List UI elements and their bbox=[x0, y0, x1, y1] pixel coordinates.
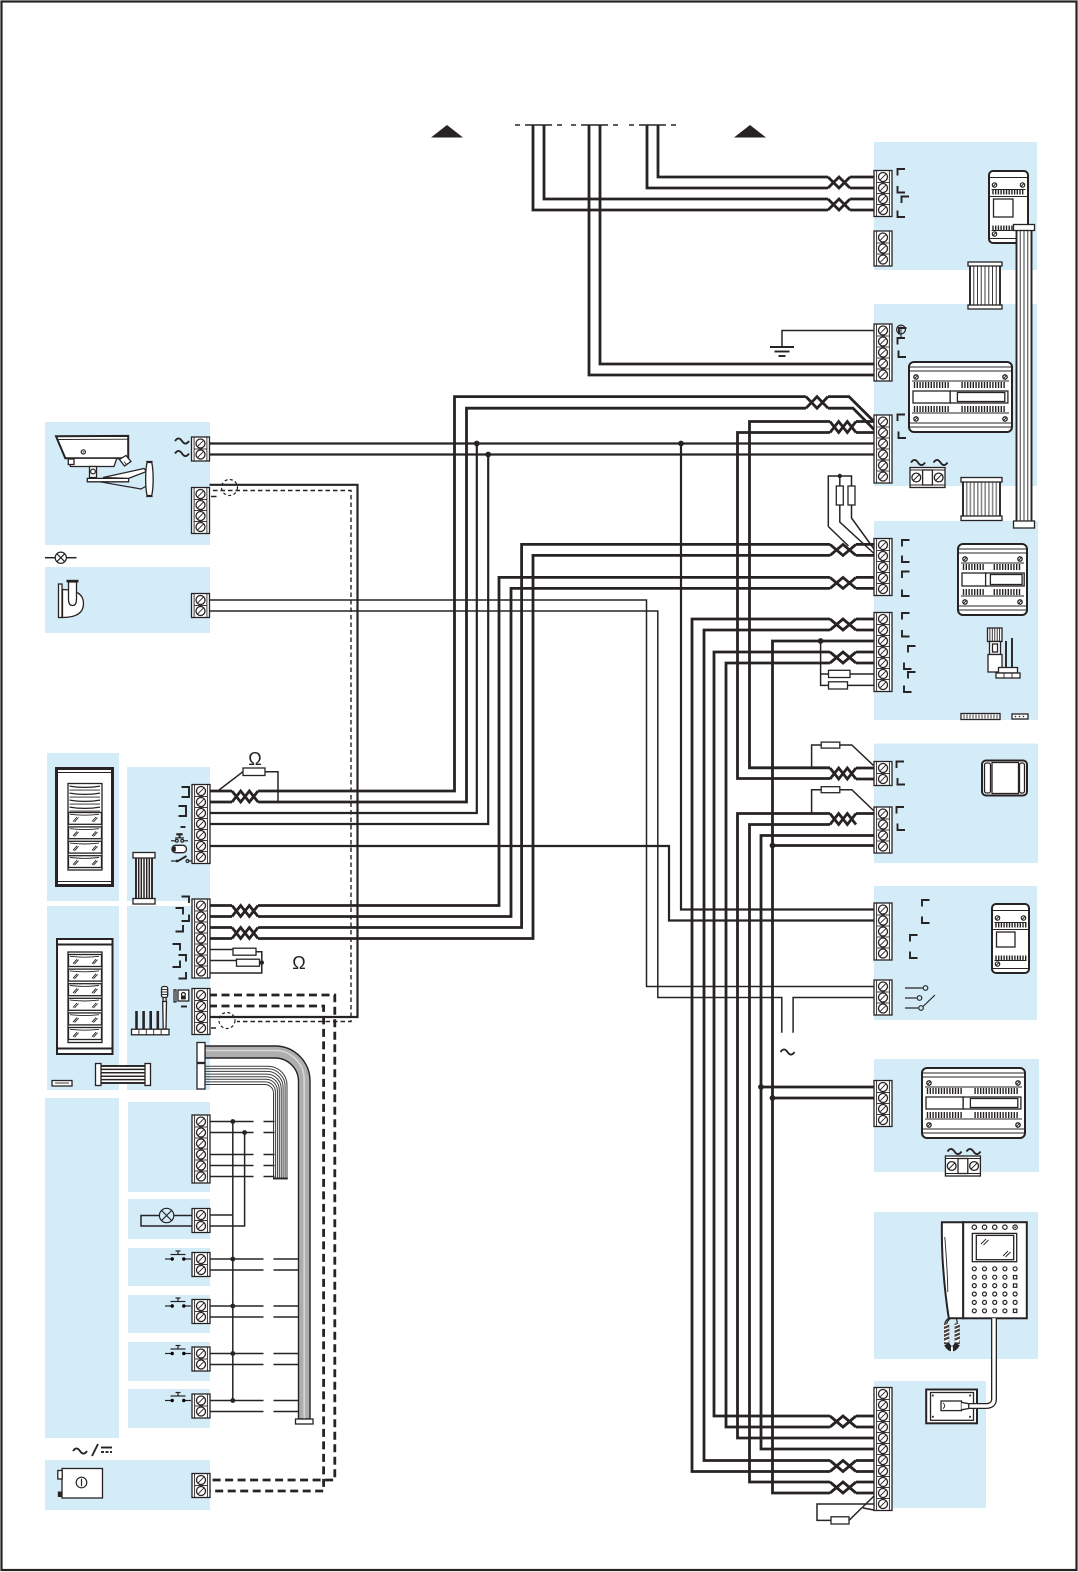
twisted pair symbol at door-TB1 bbox=[232, 791, 258, 802]
wire push-button unit row 2 bbox=[209, 1132, 275, 1134]
twisted pair symbol at TB-H middle bbox=[830, 1461, 856, 1472]
wire earth from TB-B1 screw1 bbox=[782, 331, 874, 348]
wire bus door-TB1 screw1 riser segment bbox=[258, 397, 806, 791]
twisted pair symbol at TB-C2 upper bbox=[830, 619, 856, 630]
wire bus TB-D2 screw2 down to TB-H screw9 bbox=[750, 825, 831, 1483]
wire riser pair1 to TB-A1 screw3 end bbox=[850, 198, 874, 201]
wire lamp line1 to TB-E2 screw1 bbox=[209, 600, 874, 987]
panel background: push-button sub-box 1 bbox=[128, 1102, 210, 1192]
wire camera video shield dashed bbox=[213, 491, 351, 1022]
wire camera tap to TB-E1 screw1 bbox=[681, 444, 874, 910]
switch icon at door-TB1 bbox=[171, 856, 193, 862]
twisted pair symbol at door-TB2 lower bbox=[232, 928, 258, 939]
resistor network above TB-C1 bbox=[828, 474, 874, 554]
wire TB-D2 screw3 line down to TB-H screw6 bbox=[761, 836, 874, 1450]
wire TB-C2 screw4 down to TB-H screw3 bbox=[714, 652, 830, 1416]
junction dot TB-C2 screw3 resistor tap bbox=[818, 638, 824, 644]
wire door-TB2 screw3 to TB-C1 screw1 bbox=[209, 926, 232, 929]
panel background: push-button unit left column bbox=[45, 1098, 119, 1438]
panel background: main unit C bbox=[874, 521, 1038, 720]
wire bus TB-D2 screw1 down to TB-H screw5 bbox=[738, 814, 875, 1439]
terminal block button2 (2) bbox=[192, 1300, 210, 1324]
crimp connector in unit C bbox=[988, 628, 1021, 678]
terminal block TB-C2 (7) bbox=[874, 613, 892, 692]
terminal block lamp (2) bbox=[192, 594, 210, 618]
wire TB-F screw1 tap bbox=[761, 1086, 874, 1089]
wire dashed door-TB3 screw2 to PSU bbox=[209, 1006, 324, 1491]
panel background: relay unit A bbox=[874, 142, 1037, 270]
panel background: socket unit H bbox=[874, 1381, 986, 1508]
wire riser pair3 to TB-A1 screw1 end bbox=[850, 176, 874, 179]
wire bus into TB-B2 screw1 diagonal bbox=[828, 397, 874, 422]
wire riser pair1 to TB-A1 screw4 bbox=[533, 125, 828, 210]
terminal block door-TB3 (4) bbox=[192, 989, 210, 1035]
panel background: video door phone unit G bbox=[874, 1212, 1038, 1359]
wire bus into TB-B2 screw2 diagonal bbox=[828, 408, 877, 432]
power supply module unit B bbox=[909, 362, 1012, 432]
panel background: push-button sub-box btn3 bbox=[128, 1342, 210, 1381]
push-button symbol box 3 bbox=[165, 1346, 191, 1356]
terminal block TB-E1 (5) bbox=[874, 903, 892, 960]
terminating resistor at TB-H bbox=[817, 1496, 874, 1524]
twisted pair symbol at TB-C2 lower bbox=[830, 652, 856, 663]
terminal group corner marks bbox=[173, 169, 930, 979]
resistor at TB-D2 bbox=[812, 787, 874, 814]
svg-text:Ω: Ω bbox=[292, 953, 305, 973]
panel background: door station 2 outer bbox=[47, 906, 119, 1090]
wire button box 4 row2 bbox=[209, 1411, 299, 1413]
coax marker dashed circle at camera bbox=[222, 480, 238, 496]
terminal block button4 (2) bbox=[192, 1394, 210, 1418]
wire button box 1 row1 bbox=[209, 1258, 299, 1260]
junction dot bus2 row2 bbox=[242, 1130, 247, 1135]
wire bus door-TB1 screw1 to TB-B2 screw1 bbox=[209, 790, 232, 793]
terminal block TB-C1 (5) bbox=[874, 539, 892, 596]
cable bundle block A/B bbox=[968, 262, 1002, 309]
cable bundle block B/C bbox=[961, 478, 1002, 521]
coax shield stub at camera bbox=[211, 496, 217, 498]
riser direction triangle left bbox=[431, 125, 463, 138]
panel background: power supply unit F bbox=[874, 1059, 1039, 1172]
panel background: entrance lamp unit bbox=[45, 567, 210, 633]
wire dashed door-TB3 screw1 to PSU bbox=[209, 995, 335, 1480]
wire TB-C2 screw2 down to TB-H screw7 bbox=[704, 630, 874, 1461]
AC tilde marks at camera terminal bbox=[175, 438, 189, 443]
terminal block TB-E2 (3) bbox=[874, 980, 892, 1015]
wire riser pair3 to TB-A1 screw2 end bbox=[850, 187, 874, 190]
panel background: entrance camera unit bbox=[45, 422, 210, 545]
wire push-button unit row 1 bbox=[209, 1121, 275, 1123]
twisted pair symbol at TB-C1 upper bbox=[830, 544, 856, 555]
door station flat cable horizontal bbox=[96, 1064, 151, 1086]
wire into TB-H screw3 bbox=[856, 1415, 874, 1418]
wire button box 3 row2 bbox=[209, 1364, 299, 1366]
connector comb icon at door-TB2 bbox=[132, 1011, 170, 1035]
panel background: door station 1 outer bbox=[47, 753, 119, 901]
relay module unit A bbox=[989, 171, 1028, 243]
twisted pair symbol at TB-D1 bbox=[830, 768, 856, 779]
wire into TB-H screw8 bbox=[856, 1470, 874, 1473]
wire riser pair2 to TB-B1 screw4 bbox=[600, 125, 874, 364]
pin header strip 1 in unit C bbox=[961, 714, 1000, 720]
wire TB-C2 screw1 leftward bbox=[856, 618, 874, 621]
wire common bus vertical 1 bbox=[232, 1122, 234, 1401]
terminal block door-TB1 (7) bbox=[192, 785, 210, 864]
twisted pair symbol at TB-D2 bbox=[830, 814, 856, 825]
panel background: distributor unit D bbox=[874, 744, 1038, 864]
wire TB-D2 screw4 tap bbox=[773, 844, 875, 847]
resistor R-omega at door-TB1 bbox=[219, 768, 278, 802]
wire button box 4 row1 bbox=[209, 1400, 299, 1402]
push-button symbol box 2 bbox=[165, 1298, 191, 1308]
wire camera tap to door-TB1 screw3 bbox=[209, 444, 477, 814]
terminal block TB-A2 (3) bbox=[874, 231, 892, 266]
junction dot bus1 row1 bbox=[230, 1119, 235, 1124]
wire door-TB2 screw4 to TB-C1 screw2 bbox=[209, 555, 874, 938]
panel background: push-button sub-box btn2 bbox=[128, 1295, 210, 1333]
terminal block TB-B1 (5) bbox=[874, 324, 892, 381]
wire camera supply line 2 bbox=[209, 453, 874, 455]
coax marker dashed circle at door-TB3 bbox=[219, 1013, 235, 1029]
wire bus into TB-H screw9 bbox=[856, 1481, 874, 1484]
wire bus into TB-D1 screw1 bbox=[856, 767, 874, 770]
riser direction triangle right bbox=[734, 125, 766, 138]
microphone icon at door-TB2 bbox=[162, 987, 168, 1030]
terminal block door-TB2 (7) bbox=[192, 899, 210, 978]
resistor network at door-TB2 bbox=[209, 948, 264, 973]
junction dot button box 2 bbox=[230, 1304, 235, 1309]
twisted pair symbol at TB-A1 lower bbox=[828, 199, 850, 210]
wire TB-C2 screw5 down to TB-H screw4 bbox=[726, 663, 874, 1427]
terminal block camera power (2) bbox=[192, 437, 210, 461]
lamp holder illustration bbox=[59, 580, 84, 618]
terminal block TB-A1 (4) bbox=[874, 171, 892, 217]
wire door-TB2 screw1 riser bbox=[258, 577, 830, 905]
wire push-button unit row 3 bbox=[209, 1154, 275, 1156]
coax shield stub at door-TB3 bbox=[211, 1027, 216, 1029]
AC/DC label bbox=[73, 1444, 112, 1456]
door station 2 front panel bbox=[57, 939, 113, 1054]
terminal block button3 (2) bbox=[192, 1347, 210, 1371]
svg-text:Ω: Ω bbox=[248, 749, 261, 769]
junction dot button box 4 bbox=[230, 1398, 235, 1403]
wire button box 2 row1 bbox=[209, 1305, 299, 1307]
resistor at TB-D1 bbox=[812, 742, 874, 768]
junction dot button box 1 bbox=[230, 1257, 235, 1262]
wire button box 2 row2 bbox=[209, 1316, 299, 1318]
ribbon cable B (gray) bbox=[197, 1043, 313, 1425]
terminal block TB-D2 (4) bbox=[874, 807, 892, 853]
left power supply device bbox=[58, 1469, 103, 1499]
junction dot camera line2 col488 bbox=[485, 452, 491, 458]
twisted pair symbol left of TB-B2 bbox=[830, 422, 856, 433]
panel background: power supply unit B bbox=[874, 304, 1037, 486]
pin header strip 2 in unit C bbox=[1012, 714, 1028, 719]
key icon at door-TB3 bbox=[174, 990, 189, 1002]
wire door-TB2 screw2 to TB-C1 screw5 bbox=[209, 588, 874, 916]
panel background: door station 2 module column bbox=[127, 906, 210, 1090]
wire camera video solid bbox=[209, 485, 358, 1017]
wire bus TB-B2 screw1 leftward bbox=[856, 420, 874, 423]
panel background: door station 1 module column bbox=[127, 767, 210, 901]
AC supply tilde symbol bbox=[781, 1049, 795, 1054]
resistor network at TB-C2 bbox=[821, 641, 874, 689]
power supply module unit F bbox=[922, 1068, 1025, 1138]
wire bus door-TB1 screw2 segment bbox=[209, 408, 806, 802]
junction dot column761 at TB-F screw1 bbox=[758, 1084, 764, 1090]
small flat cable icon bbox=[52, 1081, 72, 1087]
monitor connection cord bbox=[970, 1318, 995, 1406]
wire common bus vertical 2 bbox=[209, 1133, 245, 1227]
terminal block button1 (2) bbox=[192, 1253, 210, 1277]
wire riser pair1 to TB-A1 screw4 end bbox=[850, 209, 874, 212]
wire door-TB2 screw3 riser bbox=[258, 544, 830, 927]
wire push-button unit row 4 bbox=[209, 1165, 275, 1167]
wire TB-E2 screw2 to AC stub bbox=[793, 998, 874, 1033]
wire TB-F screw2 tap bbox=[773, 1097, 875, 1100]
panel background: push-button sub-box btn4 bbox=[128, 1389, 210, 1428]
panel background: left power supply unit bbox=[45, 1460, 210, 1510]
wire button box 3 row1 bbox=[209, 1353, 299, 1355]
wire riser stub pair 3 cut mark bbox=[639, 124, 666, 126]
wire riser pair3 to TB-A1 screw2 bbox=[647, 125, 828, 188]
ribbon cable A (multi-conductor) bbox=[197, 1064, 288, 1179]
wire TB-C2 screw3 line bbox=[773, 641, 875, 1493]
wall socket unit H bbox=[926, 1390, 977, 1424]
wire bus TB-B2 screw1 down to TB-D1 bbox=[750, 422, 831, 768]
wire door-TB1 screw6 to TB-E1 screw2 bbox=[209, 846, 874, 921]
push-button symbol box 4 bbox=[165, 1393, 191, 1403]
wire riser stub pair 1 cut mark bbox=[525, 124, 552, 126]
riser cable column bbox=[1014, 225, 1035, 529]
wire bus TB-D2 screw1 leftward bbox=[856, 812, 874, 815]
terminal block lamp box (2) bbox=[192, 1209, 210, 1233]
wire into TB-C1 screw4 bbox=[856, 576, 874, 579]
wire riser pair3 to TB-A1 screw1 bbox=[658, 125, 828, 177]
wire push-button unit row 5 bbox=[209, 1176, 275, 1178]
fuse holder unit F bbox=[945, 1156, 980, 1176]
polarity dash at door-TB3 bbox=[181, 1006, 187, 1008]
wire lamp line2 to AC stub bbox=[209, 611, 782, 1033]
wire riser stub pair 2 cut mark bbox=[581, 124, 608, 126]
twisted pair symbol at TB-C1 lower bbox=[830, 577, 856, 588]
push-button symbol box 1 bbox=[165, 1251, 191, 1261]
lamp symbol in lamp box bbox=[159, 1208, 192, 1222]
wire camera tap to door-TB1 screw4 bbox=[209, 455, 488, 825]
door station 1 front panel bbox=[57, 769, 113, 886]
terminal block TB-F (4) bbox=[874, 1081, 892, 1127]
polarity dash at door-TB1 bbox=[181, 826, 186, 828]
terminal block TB-B2 (6) bbox=[874, 415, 892, 483]
wire door-TB2 screw1 to TB-C1 screw4 bbox=[209, 904, 232, 907]
terminal block buttons main (6) bbox=[192, 1115, 210, 1183]
panel background: push-button sub-box lamp bbox=[128, 1199, 210, 1239]
relay module unit E bbox=[992, 904, 1029, 973]
wire lamp box feed bbox=[209, 1214, 233, 1216]
changeover switch symbol unit E bbox=[905, 986, 935, 1011]
terminal block TB-D1 (2) bbox=[874, 762, 892, 786]
junction dot button box 3 bbox=[230, 1351, 235, 1356]
main module unit C bbox=[958, 544, 1027, 615]
twisted pair symbol at TB-H upper bbox=[830, 1416, 856, 1427]
wire into TB-C1 screw1 bbox=[856, 543, 874, 546]
ground symbol bbox=[770, 347, 794, 356]
wire camera supply line 1 bbox=[209, 442, 874, 444]
wire riser pair2 to TB-B1 screw5 bbox=[589, 125, 874, 375]
video door phone unit bbox=[942, 1222, 1027, 1318]
distributor box unit D bbox=[982, 761, 1027, 796]
door station cable bundle bbox=[133, 853, 155, 905]
junction dot column772 at TB-D2 screw4 bbox=[770, 843, 776, 849]
lamp symbol between camera and lamp panels bbox=[45, 552, 77, 563]
wire bus TB-B2 screw2 down to TB-D1 screw2 bbox=[738, 433, 875, 780]
wire TB-C2 screw4 leftward bbox=[856, 651, 874, 654]
wire riser pair1 to TB-A1 screw3 bbox=[544, 125, 828, 199]
junction dot column772 at TB-F screw2 bbox=[770, 1095, 776, 1101]
protective earth icon at TB-B1 bbox=[897, 325, 906, 337]
handset coiled cord bbox=[944, 1319, 960, 1353]
AC tildes at fuse F bbox=[948, 1149, 962, 1154]
junction dot camera line1 col681 bbox=[678, 441, 684, 447]
push-button icon at door-TB1 bbox=[171, 833, 188, 842]
terminal block left PSU (2) bbox=[192, 1474, 210, 1498]
wire TB-C2 screw1 down to TB-H screw8 bbox=[692, 619, 830, 1472]
terminal block TB-H (11) bbox=[874, 1388, 892, 1511]
junction dot camera line1 col476 bbox=[474, 441, 480, 447]
panel background: relay unit E bbox=[874, 886, 1037, 1020]
AC tildes at fuse B bbox=[911, 460, 925, 465]
CCTV camera illustration bbox=[56, 436, 153, 497]
fuse holder unit B bbox=[910, 468, 945, 488]
twisted pair symbol at TB-H lower1 bbox=[830, 1482, 856, 1493]
terminal block camera video (4) bbox=[192, 488, 210, 534]
wire button box 1 row2 bbox=[209, 1269, 299, 1271]
twisted pair symbol near TB-B2 upper bbox=[806, 397, 828, 409]
twisted pair symbol at TB-A1 upper bbox=[828, 177, 850, 188]
lock cylinder icon at door-TB1 bbox=[172, 845, 187, 852]
panel background: push-button sub-box btn1 bbox=[128, 1248, 210, 1286]
twisted pair symbol at door-TB2 upper bbox=[232, 906, 258, 917]
wire into TB-H screw10 bbox=[856, 1492, 874, 1495]
